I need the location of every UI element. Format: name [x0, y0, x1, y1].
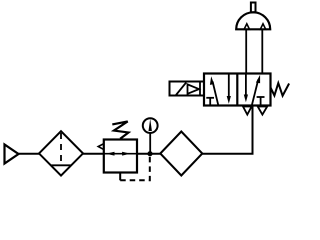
wire regulator to lubricator: [137, 153, 161, 155]
valve left position: flow arrow down: [227, 74, 231, 104]
air source P1: [5, 145, 19, 164]
pressure regulator R1: [98, 140, 137, 173]
regulator spring: [112, 121, 128, 138]
wire valve port 4 to suction cup: [245, 29, 247, 73]
valve left position: flow arrow up: [210, 76, 218, 105]
valve left position: blocked port: [206, 98, 214, 106]
filter F1: [39, 131, 83, 175]
regulator pilot feedback line (dashed): [120, 155, 150, 180]
wire filter to regulator: [83, 153, 104, 155]
valve right position: flow arrow up: [252, 75, 260, 105]
solenoid pilot actuator S1: [170, 82, 205, 96]
valve exhaust 5: [243, 107, 252, 115]
pressure gauge G1: [143, 118, 158, 152]
junction node: [147, 151, 152, 156]
valve exhaust 3: [258, 107, 268, 115]
valve return spring: [271, 83, 290, 96]
suction cup SC1: [236, 3, 270, 30]
valve right position: flow arrow down: [244, 74, 248, 103]
directional valve V1 body: [204, 74, 271, 106]
lubricator L1: [160, 132, 202, 176]
wire valve port 2 to suction cup: [261, 29, 263, 73]
supply wire to valve: [202, 106, 252, 154]
wire source to filter: [19, 153, 41, 155]
valve right position: blocked port: [257, 97, 265, 106]
